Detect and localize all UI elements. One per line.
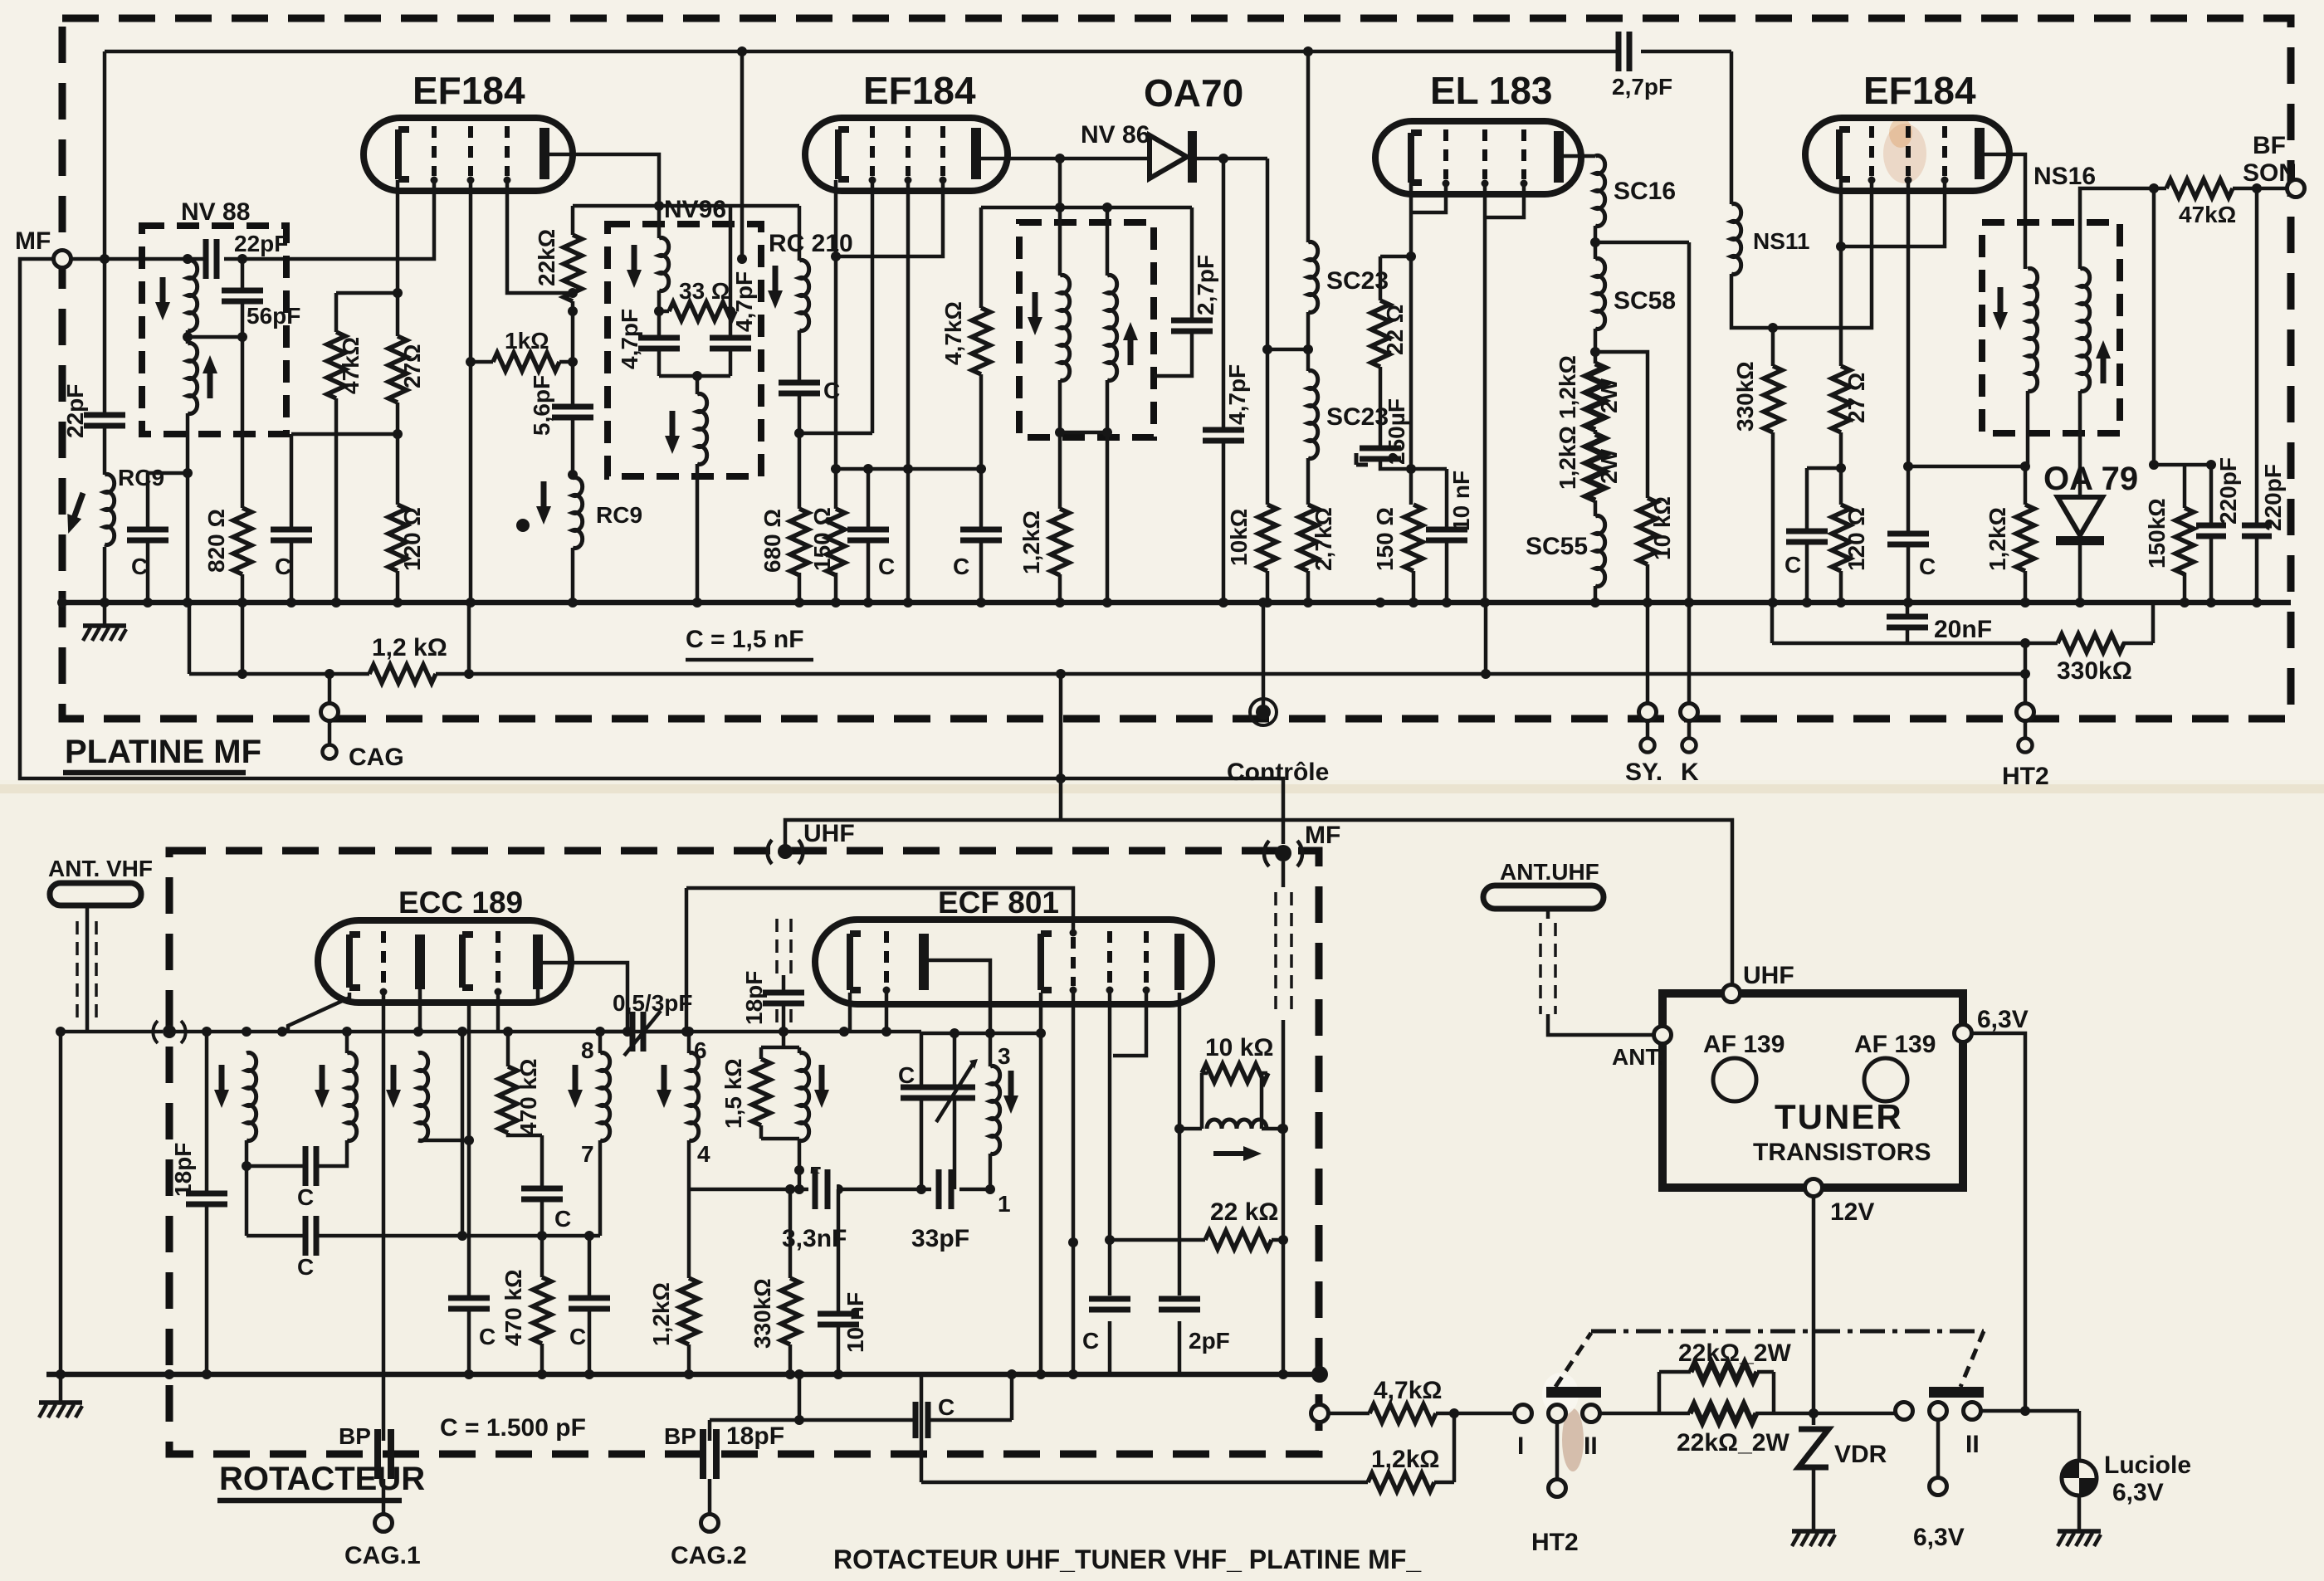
diode OA70 [1144, 71, 1243, 183]
wire between 2W resistors [1594, 430, 1598, 434]
wire grid1 ECC189 column [382, 992, 386, 1441]
svg-text:C: C [131, 554, 148, 579]
NV88 secondary coil [188, 344, 217, 414]
capacitor 10nF (mixer) [818, 1189, 868, 1374]
svg-text:18pF: 18pF [170, 1143, 196, 1197]
scan stain near switch I [1562, 1408, 1584, 1471]
resistor 330kΩ (below bus) [2057, 634, 2132, 685]
svg-text:II: II [1965, 1431, 1980, 1458]
svg-text:4,7kΩ: 4,7kΩ [940, 301, 966, 365]
svg-text:10 kΩ: 10 kΩ [1205, 1034, 1273, 1061]
capacitor C (470k coupling) [521, 1188, 571, 1232]
capacitor C (V2 cathode) [847, 469, 895, 603]
wire grid1 rail V2 [799, 432, 872, 436]
resistor 10kΩ / coil parallel group [1179, 1034, 1282, 1161]
svg-text:UHF: UHF [1743, 962, 1794, 989]
svg-text:10kΩ: 10kΩ [1226, 509, 1252, 566]
capacitor C (pentode g2) [1082, 1299, 1130, 1354]
svg-text:C: C [1784, 552, 1801, 578]
svg-text:2,7kΩ: 2,7kΩ [1311, 507, 1336, 571]
svg-text:4,7pF: 4,7pF [1224, 364, 1250, 425]
svg-text:ROTACTEUR: ROTACTEUR [219, 1461, 425, 1497]
terminal 12V (tuner) [1805, 1179, 1875, 1227]
svg-text:1kΩ: 1kΩ [505, 328, 549, 354]
svg-text:4: 4 [697, 1141, 710, 1167]
svg-text:EL 183: EL 183 [1430, 69, 1552, 112]
resistor 4,7kΩ [940, 301, 990, 374]
wire NV96 primary [657, 206, 662, 376]
resistor 120Ω (V3) [1832, 505, 1869, 571]
wire 12V column [1812, 1197, 1816, 1331]
wire C cap branch [148, 473, 188, 603]
wire grid2 V1 column [469, 180, 473, 603]
terminal switch mid [1531, 1405, 1579, 1557]
capacitor C (stage 1 cathode) [127, 529, 168, 579]
capacitor C (V2 screen) [953, 469, 1002, 603]
svg-text:C: C [297, 1254, 314, 1280]
terminal II a [1896, 1403, 1913, 1420]
resistor 820Ω [203, 508, 251, 574]
capacitor C (CAG2 rail) [915, 1394, 954, 1438]
wire screen rail NV86 [981, 206, 1192, 210]
wire HT2 column [2024, 643, 2028, 711]
wire MF to grid EF184 V1 [71, 180, 434, 259]
wire NS16 secondary top to BF [2080, 188, 2287, 269]
svg-text:C: C [898, 1062, 915, 1088]
wire UHF link [785, 820, 1732, 993]
capacitor 2pF [1159, 1299, 1230, 1354]
wire 120Ω to bus [396, 571, 400, 603]
wire 4,7k output [1328, 1412, 1512, 1416]
switch I/II (left) [1546, 1333, 1601, 1398]
wire to 22k pair [1600, 1412, 1895, 1416]
resistor 47kΩ [327, 332, 364, 398]
coil SC55 [1526, 516, 1605, 587]
wire grid3 EL183 [1485, 183, 1524, 217]
wire between SC23 coils [1306, 312, 1311, 371]
trimmer 0,5/3pF [600, 990, 692, 1056]
wire caps bottom rail [659, 374, 730, 378]
resistor 150kΩ [2144, 465, 2194, 603]
wire grid1 V2 [871, 180, 875, 433]
antenna ANT.VHF [48, 856, 153, 1032]
terminal Contrôle [1227, 598, 1329, 786]
svg-text:0,5/3pF: 0,5/3pF [613, 990, 692, 1016]
wire diode out [1197, 157, 1267, 161]
svg-text:EF184: EF184 [1863, 69, 1976, 112]
svg-text:OA 79: OA 79 [2043, 461, 2138, 497]
wire anode2 ECC189 to mixer row [538, 963, 627, 1032]
wire detector rail [1908, 465, 2025, 469]
svg-text:NV96: NV96 [664, 196, 726, 223]
svg-text:I: I [1517, 1432, 1524, 1460]
wire 56pF column [188, 259, 242, 508]
coil SC58 [1595, 259, 1676, 329]
coil NS11 [1731, 204, 1810, 275]
svg-text:K: K [1681, 759, 1699, 786]
NV88 primary coil [155, 261, 198, 331]
wire anode1 ECC189 [418, 989, 422, 1032]
capacitor C (cathode2) [448, 1298, 496, 1349]
svg-text:UHF: UHF [803, 820, 855, 847]
wire cathode V3 column [1839, 180, 1843, 366]
svg-text:1,2kΩ: 1,2kΩ [1555, 355, 1580, 419]
svg-text:RC 210: RC 210 [769, 230, 853, 257]
wire anode V2 to diode [981, 157, 1150, 161]
capacitor C (pin7 branch) [569, 1236, 610, 1374]
resistor 150Ω [809, 507, 845, 575]
svg-text:5,6pF: 5,6pF [529, 375, 554, 436]
wire cathode to 120Ω [1839, 432, 1843, 505]
svg-text:3: 3 [998, 1043, 1011, 1069]
ROTACTEUR dashed enclosure [169, 851, 1319, 1454]
svg-text:C: C [554, 1206, 571, 1232]
NV86 secondary coil [1107, 276, 1138, 381]
resistor 22Ω [1371, 256, 1408, 448]
resistor 47kΩ (BF) [2166, 179, 2236, 227]
capacitor 33pF [911, 1169, 969, 1252]
NV86 primary coil [1028, 276, 1070, 381]
wire grid3 V3 to cathode [1841, 180, 1945, 246]
transformer NS16 dashed box [1982, 222, 2120, 433]
transformer NV86 dashed box [1019, 222, 1154, 437]
svg-text:1,2kΩ: 1,2kΩ [1555, 426, 1580, 490]
wire SC55 to bus [1594, 586, 1598, 603]
transistor AF139 (1) [1703, 1031, 1784, 1101]
svg-text:22pF: 22pF [62, 384, 88, 438]
ground symbol (bottom left) [39, 1374, 82, 1418]
wire cathode EL183 column [1411, 181, 1413, 603]
wire NS11 bottom to grid1 V3 [1731, 180, 1872, 328]
variable capacitor (tank) [934, 1059, 978, 1122]
ROTACTEUR label [217, 1461, 425, 1500]
svg-text:C: C [479, 1324, 496, 1349]
svg-text:220pF: 220pF [2215, 457, 2241, 525]
capacitor BP/18pF (CAG2 feedthrough) [664, 1422, 784, 1479]
switch II (right) [1929, 1331, 1984, 1398]
coil (tank, pin 3-1) [990, 1066, 1018, 1154]
wire SC16 bottom / AGC rail [1595, 226, 1689, 259]
wire 820Ω to bus [241, 574, 245, 603]
svg-text:C: C [878, 554, 895, 579]
wire NV86 primary column [1058, 159, 1062, 603]
wire pentode g2 column [1108, 990, 1112, 1374]
transformer NV88 dashed box [142, 226, 286, 434]
wire to 10kΩ [1595, 352, 1648, 603]
wire g2 column to rail [461, 1032, 465, 1236]
wire CAG1 [382, 1441, 386, 1514]
wire pentode g3 tie [1113, 990, 1146, 1056]
wire triode anode to tank (pin 3) [929, 960, 990, 1033]
capacitor 20nF [1887, 616, 1992, 643]
capacitor BP (CAG1 feedthrough) [339, 1423, 391, 1479]
coil RC9 (stage2 grid) [536, 478, 642, 549]
wire coil2 top [345, 1032, 349, 1053]
svg-text:56pF: 56pF [247, 303, 300, 329]
tube ECC189 [318, 886, 571, 1003]
wire 6,3V from tuner [1972, 1033, 2025, 1411]
svg-text:BP: BP [664, 1423, 696, 1449]
terminal (border, HT feed) [1311, 1405, 1329, 1422]
coil (pin 6-4) [657, 1032, 699, 1141]
svg-text:10 nF: 10 nF [1448, 471, 1474, 531]
svg-text:10 kΩ: 10 kΩ [1649, 496, 1675, 560]
svg-text:18pF: 18pF [741, 971, 767, 1025]
capacitor 2,7pF (detector) [1154, 207, 1218, 376]
wire grid3 V1 [507, 180, 573, 293]
svg-text:ANT.UHF: ANT.UHF [1500, 859, 1599, 885]
capacitor 10nF [1426, 469, 1474, 603]
wire K column [1687, 242, 1692, 603]
svg-text:MF: MF [1305, 822, 1340, 849]
svg-text:22kΩ: 22kΩ [534, 229, 559, 286]
wire coil1 bottom [245, 1140, 249, 1236]
wire pentode cathode ECF801 [990, 993, 1041, 1374]
svg-text:820 Ω: 820 Ω [203, 509, 229, 573]
svg-text:1,2kΩ: 1,2kΩ [648, 1282, 674, 1346]
wire AGC drop from top bus [740, 51, 745, 259]
svg-text:RC9: RC9 [118, 465, 164, 490]
PLATINE MF label underline [63, 770, 246, 776]
resistor 22kΩ [534, 229, 582, 301]
diode OA79 [2043, 461, 2138, 603]
resistor 1,2kΩ 2W (upper) [1555, 355, 1622, 430]
wire column x126 [103, 51, 107, 603]
coil SC16 [1595, 156, 1676, 227]
capacitor 18pF (UHF) [741, 971, 804, 1025]
capacitor C (V3 cathode) [1784, 531, 1828, 578]
wire 250µF to cathode rail [1380, 459, 1447, 469]
svg-text:AF 139: AF 139 [1854, 1031, 1936, 1058]
wire 33Ω right column [729, 207, 733, 376]
svg-text:NS11: NS11 [1753, 228, 1810, 254]
wire antenna to connector [61, 1032, 163, 1374]
svg-text:22kΩ_2W: 22kΩ_2W [1678, 1339, 1791, 1367]
wire CAG2 decoupling rail [710, 1374, 1012, 1441]
HT top bus wire [105, 50, 1731, 54]
wire V2 decoupling rail [836, 467, 981, 471]
coax connector VHF [153, 1021, 185, 1043]
ground symbol (top) [83, 603, 126, 641]
capacitor 22pF [62, 384, 125, 438]
svg-text:680 Ω: 680 Ω [759, 509, 785, 573]
tube EF184 V1 [364, 69, 573, 191]
svg-text:C: C [297, 1184, 314, 1210]
svg-text:6,3V: 6,3V [2112, 1479, 2164, 1506]
capacitor 220pF (2) [2242, 188, 2286, 603]
wire anode V1 to NV96 [549, 154, 659, 206]
terminal MF [15, 227, 71, 268]
svg-text:NS16: NS16 [2033, 163, 2096, 190]
svg-text:Contrôle: Contrôle [1227, 759, 1329, 786]
svg-text:2W: 2W [1596, 448, 1622, 484]
terminal UHF (border) [768, 820, 855, 864]
capacitor 5,6pF [529, 375, 593, 436]
resistor 150Ω (EL183 cathode) [1372, 505, 1423, 571]
svg-text:10 nF: 10 nF [842, 1292, 868, 1353]
coil SC23 (bottom) [1308, 371, 1389, 459]
svg-text:ECC 189: ECC 189 [398, 886, 523, 920]
capacitor 4,7pF (right) [710, 271, 757, 349]
resistor 10kΩ (EL183) [1638, 496, 1675, 564]
coil SC23 (top) [1308, 242, 1389, 313]
svg-text:NV 86: NV 86 [1081, 121, 1150, 149]
svg-text:ANT.: ANT. [1612, 1044, 1663, 1070]
svg-text:250µF: 250µF [1384, 398, 1409, 465]
wire detector output column [2152, 188, 2156, 465]
wire 47k to bus [334, 398, 339, 603]
wire pin4 to mixer rail [687, 1140, 691, 1189]
stray ink dot [516, 519, 530, 532]
svg-text:6,3V: 6,3V [1977, 1006, 2029, 1033]
svg-text:12V: 12V [1830, 1198, 1874, 1226]
capacitor C (series link 2) [247, 1216, 600, 1280]
terminal CAG.2 [671, 1515, 747, 1570]
svg-text:CAG.2: CAG.2 [671, 1542, 747, 1569]
svg-text:1,2kΩ: 1,2kΩ [1985, 507, 2010, 571]
wire anode V3 to NS16 [1985, 154, 2025, 269]
resistor 27Ω [388, 336, 425, 403]
wire 22Ω top to cathode EL183 [1380, 255, 1411, 259]
svg-text:C: C [1919, 554, 1936, 579]
svg-text:220pF: 220pF [2260, 464, 2286, 531]
svg-text:470 kΩ: 470 kΩ [515, 1058, 541, 1135]
svg-text:CAG.1: CAG.1 [344, 1542, 421, 1569]
svg-text:2,7pF: 2,7pF [1193, 255, 1218, 315]
wire NS16 primary bottom [2025, 391, 2028, 603]
terminal II c [1964, 1403, 1981, 1459]
resistor 680Ω [759, 509, 808, 575]
terminal 6,3V (tuner) [1955, 1006, 2029, 1042]
svg-text:C = 1,5 nF: C = 1,5 nF [686, 626, 804, 653]
wire to SC55 [1594, 500, 1598, 516]
svg-text:TRANSISTORS: TRANSISTORS [1753, 1139, 1931, 1166]
capacitor 2,7pF (series, top bus) [1612, 32, 1672, 100]
wire NV88 primary [186, 259, 190, 344]
dash-dot link line [1591, 1330, 1984, 1334]
wire grid2 rail [496, 992, 500, 1032]
wire RC210 column [798, 206, 802, 603]
transistor AF139 (2) [1854, 1031, 1936, 1101]
svg-text:1: 1 [998, 1191, 1011, 1217]
svg-text:SC58: SC58 [1614, 287, 1676, 315]
svg-text:120 Ω: 120 Ω [1843, 507, 1869, 571]
resistor 330kΩ (mixer) [749, 1189, 799, 1374]
capacitor 4,7pF (detector) [1203, 159, 1250, 603]
wire 10k to SC23 [1267, 348, 1308, 352]
svg-text:470 kΩ: 470 kΩ [500, 1269, 526, 1346]
wire grid2 V2 [906, 180, 911, 603]
terminal MF (border) [1264, 822, 1340, 866]
terminal I [1515, 1405, 1532, 1461]
svg-text:150 Ω: 150 Ω [1372, 507, 1398, 571]
svg-text:HT2: HT2 [2002, 763, 2049, 790]
wire pentode g1 ECF801 [1072, 990, 1076, 1374]
capacitor C (RC210) [779, 378, 840, 403]
svg-text:2,7pF: 2,7pF [1612, 74, 1672, 100]
resistor 1,2kΩ [1018, 509, 1069, 575]
wire cathode to 120Ω [396, 403, 400, 505]
wire 330k to bus [1771, 432, 1775, 603]
svg-text:47kΩ: 47kΩ [338, 337, 364, 394]
svg-text:ANT. VHF: ANT. VHF [48, 856, 153, 881]
svg-text:SC16: SC16 [1614, 178, 1676, 205]
wire MF output column [1282, 861, 1286, 1374]
wire SC23 to 2,7k [1306, 458, 1311, 603]
capacitor 18pF (input) [170, 1032, 227, 1374]
wire triode cathode ECF801 [848, 993, 852, 1032]
svg-text:C: C [1082, 1328, 1099, 1354]
capacitor 22pF (series at NV88 top) [206, 231, 288, 279]
wire 4,7k column [979, 207, 984, 469]
NV96 secondary coil [665, 394, 707, 465]
capacitor 220pF (1) [2196, 457, 2241, 603]
scan stain near EF184 V3 [1883, 124, 1926, 183]
wire V3 cathode C branch [1807, 468, 1841, 603]
resistor 22kΩ (pentode screen feed) [1110, 1198, 1283, 1249]
ground bus (top section) [62, 600, 2291, 606]
wire NV86 secondary column [1060, 207, 1107, 603]
svg-text:330kΩ: 330kΩ [2057, 657, 2132, 685]
svg-text:Luciole: Luciole [2104, 1452, 2191, 1479]
svg-text:CAG: CAG [349, 744, 404, 771]
terminal II b (6,3V) [1913, 1403, 1965, 1552]
resistor 1,2kΩ (mixer) [648, 1189, 698, 1374]
terminal UHF (tuner) [1723, 962, 1794, 1003]
wire anode EL183 to SC16 [1564, 154, 1595, 159]
svg-text:33pF: 33pF [911, 1225, 969, 1252]
coil RC210 [768, 230, 853, 331]
resistor 2,7kΩ [1299, 505, 1336, 571]
svg-text:150 Ω: 150 Ω [809, 507, 835, 571]
svg-text:HT2: HT2 [1531, 1529, 1579, 1556]
resistor 1,2kΩ (V3) [1985, 505, 2034, 571]
NV96 primary coil [627, 238, 669, 291]
resistor 470kΩ (lower) [500, 1236, 551, 1374]
svg-text:2pF: 2pF [1189, 1328, 1230, 1354]
wire top bus down to NS11 [1730, 51, 1734, 204]
svg-text:EF184: EF184 [863, 69, 976, 112]
tube EF184 V3 [1805, 69, 2009, 191]
label C = 1,5 nF [686, 626, 813, 660]
wire coil3 bottom to cathode2 [418, 1139, 469, 1143]
svg-text:27 Ω: 27 Ω [1843, 373, 1869, 423]
coil (pin 8-7) [568, 1032, 610, 1141]
svg-text:47kΩ: 47kΩ [2179, 202, 2236, 227]
resistor 33Ω [659, 278, 735, 320]
svg-text:OA70: OA70 [1144, 71, 1243, 115]
svg-text:330kΩ: 330kΩ [1732, 361, 1758, 432]
transformer NV96 dashed box [608, 224, 761, 476]
svg-text:120 Ω: 120 Ω [399, 507, 425, 571]
svg-text:150kΩ: 150kΩ [2144, 498, 2170, 568]
svg-text:6,3V: 6,3V [1913, 1524, 1965, 1551]
capacitor C (tank) [898, 1062, 942, 1098]
wire row to oscillator [689, 1030, 921, 1034]
svg-text:BP: BP [339, 1423, 371, 1449]
wire cathode2 column [467, 1003, 471, 1374]
wire stage1 decoupling rail [291, 434, 398, 603]
svg-text:II: II [1584, 1432, 1598, 1460]
resistor 1kΩ [471, 328, 573, 371]
resistor pair 22kΩ 2W [1659, 1339, 1791, 1457]
NS16 secondary coil [2080, 269, 2111, 392]
coil (input filter 1) [214, 1053, 256, 1141]
svg-text:PLATINE MF: PLATINE MF [65, 734, 261, 770]
svg-text:22 Ω: 22 Ω [1382, 305, 1408, 355]
wire grid2 EL183 column [1483, 183, 1487, 603]
tube EL183 [1375, 69, 1581, 194]
